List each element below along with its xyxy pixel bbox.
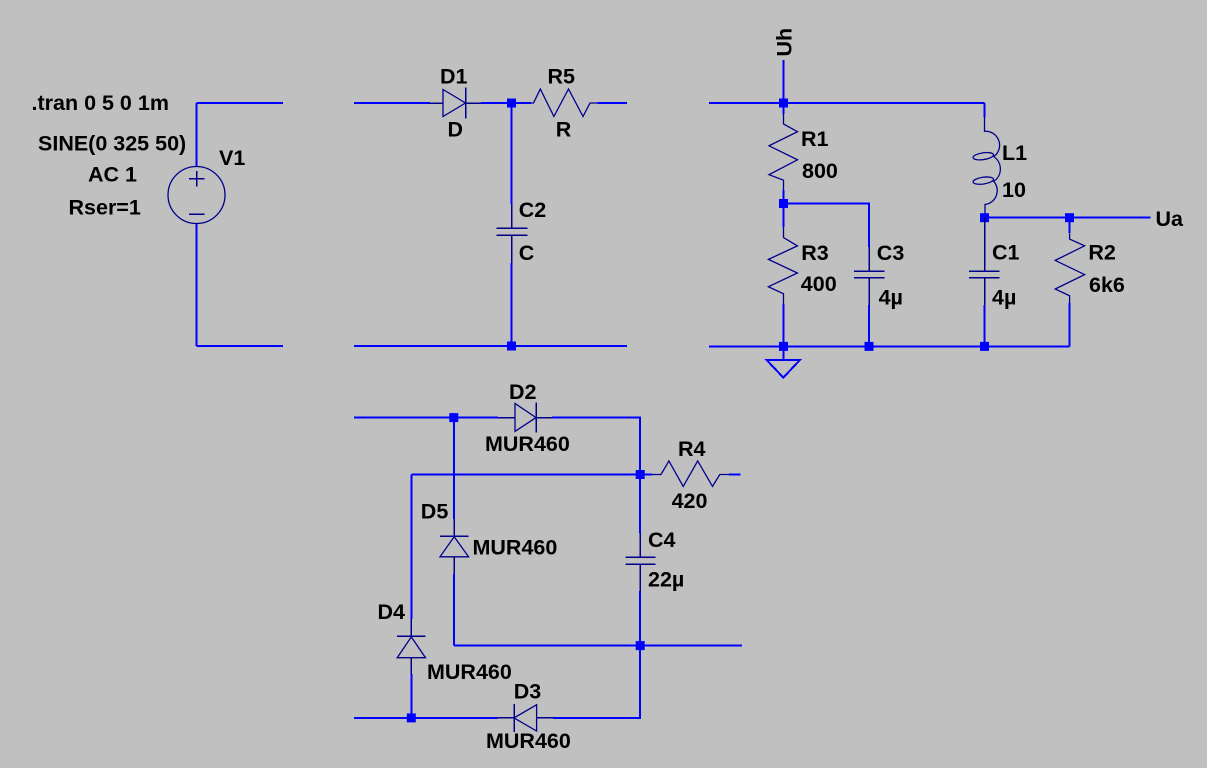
svg-text:MUR460: MUR460 [427,660,512,684]
svg-text:D4: D4 [378,600,406,624]
V1 plus sign [189,171,205,187]
svg-text:Ua: Ua [1156,207,1185,231]
wire top rail bottom circuit [354,417,498,419]
wire junction to C3 branch [784,204,870,247]
wire D1 to node [481,102,531,104]
svg-text:R4: R4 [678,437,706,461]
svg-text:L1: L1 [1002,141,1027,165]
wire row2 [411,474,640,476]
svg-text:D1: D1 [440,65,468,89]
capacitor C1 [969,218,999,305]
node junction C3 bottom [865,342,874,351]
svg-text:R: R [556,118,572,142]
svg-text:R3: R3 [801,241,829,265]
diode D3 [498,704,554,732]
node junction D4 bottom [407,713,416,722]
ground symbol [767,346,800,377]
svg-text:C3: C3 [877,241,905,265]
resistor R1 [769,103,798,204]
voltage source V1 circle [168,167,225,224]
resistor R4 [640,461,740,487]
wire bottom rail right circuit [709,345,1070,347]
capacitor C3 [854,247,884,305]
wire V1 top lead [196,103,198,167]
wire V1 bottom lead [196,224,198,347]
wire D3 to corner up [553,646,640,718]
svg-text:420: 420 [672,489,708,513]
svg-text:SINE(0 325 50): SINE(0 325 50) [38,132,186,156]
wire D5 to inner row [453,574,455,646]
svg-text:R5: R5 [548,65,576,89]
node junction top of R1 [779,99,788,108]
V1 minus sign [189,213,205,215]
svg-text:MUR460: MUR460 [485,432,570,456]
node junction bottom middle [507,342,516,351]
svg-text:10: 10 [1002,178,1026,202]
wire top rail left circuit [197,102,284,104]
node junction at D1/R5/C2 [507,99,516,108]
wire inner bottom row [454,645,742,647]
svg-text:6k6: 6k6 [1089,273,1125,297]
svg-text:22µ: 22µ [648,568,684,592]
resistor R2 [1055,218,1084,347]
node junction C4 bottom [636,641,645,650]
wire bottom rail middle circuit [354,345,627,347]
wire D4 column top [410,475,412,620]
wire top rail right circuit [709,102,985,104]
svg-text:D: D [448,117,464,141]
wire R5 right [598,102,628,104]
node junction C1 bottom [980,342,989,351]
svg-text:AC 1: AC 1 [88,163,137,187]
capacitor C4 [625,533,655,591]
svg-text:V1: V1 [219,146,245,170]
svg-text:MUR460: MUR460 [473,535,558,559]
diode D2 [498,402,552,432]
wire C2 to bottom rail [511,263,513,346]
svg-text:D3: D3 [514,680,542,704]
svg-text:Uh: Uh [773,28,797,57]
node junction ground [779,342,788,351]
diode D4 [397,619,425,674]
svg-text:C: C [519,241,535,265]
svg-text:D2: D2 [509,380,537,404]
svg-text:D5: D5 [421,499,449,523]
wire C4 bottom [639,591,641,646]
node junction R4/C4 [636,470,645,479]
svg-text:R2: R2 [1088,241,1116,265]
wire output to Ua [985,217,1151,219]
wire node to C2 [511,103,513,204]
wire top rail to D1 [354,102,430,104]
svg-text:800: 800 [802,159,838,183]
wire Uh stub [783,60,785,103]
svg-text:4µ: 4µ [879,286,903,310]
node junction R1/R3 [779,199,788,208]
svg-text:C4: C4 [648,528,676,552]
wire corner to L1 [984,103,986,117]
wire D2 to corner and down [552,418,640,475]
svg-text:R1: R1 [801,127,829,151]
node junction R2 top [1065,213,1074,222]
inductor L1 [973,117,1001,218]
wire C3 to bottom rail [868,305,870,346]
diode D1 [429,88,481,119]
svg-text:C2: C2 [519,198,547,222]
svg-text:Rser=1: Rser=1 [69,196,141,220]
wire bottom rail left circuit [197,345,284,347]
capacitor C2 [497,204,528,263]
wire C4 top [639,475,641,534]
wire bottom rail left part [354,717,498,719]
svg-text:4µ: 4µ [992,286,1016,310]
resistor R5 [531,89,598,117]
wire D4 to bottom rail [410,674,412,718]
resistor R3 [768,204,797,346]
node junction L1/C1 [980,213,989,222]
svg-text:MUR460: MUR460 [486,729,571,753]
svg-text:.tran 0 5 0 1m: .tran 0 5 0 1m [32,91,169,115]
diode D5 [440,519,469,574]
wire C1 to bottom rail [984,305,986,346]
wire D5 column top [453,418,455,519]
svg-text:C1: C1 [992,241,1020,265]
node junction D5 top [449,413,458,422]
svg-text:400: 400 [801,272,837,296]
